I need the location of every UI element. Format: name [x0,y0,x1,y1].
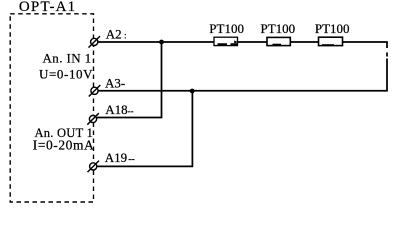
wire right vertical (dashed top artifact) [386,42,388,57]
wire right vertical solid [386,59,388,92]
wire A19 up to A3 net [98,91,193,166]
wire bottom return to A3 [98,90,388,92]
terminal A3 [89,85,101,97]
junction on A2 net [159,40,164,45]
svg-text:I=0-20mA: I=0-20mA [33,138,95,153]
resistor PT100 #1 [209,21,244,46]
wire A18 up to A2 net [97,43,162,118]
svg-text:U=0-10V: U=0-10V [39,67,93,82]
wire A2 horizontal to PT100 chain [98,41,388,43]
svg-text:PT100: PT100 [209,21,244,36]
resistor PT100 #3 [315,21,350,46]
terminal A18 [87,113,99,125]
junction on A3 net [190,89,195,94]
resistor PT100 #2 [261,21,296,46]
svg-text:PT100: PT100 [261,21,296,36]
svg-text:A18--: A18-- [105,102,133,117]
terminal A19 [88,161,100,173]
svg-text:A2 :: A2 : [106,26,127,41]
svg-text:A3-: A3- [105,76,125,91]
terminal A2 [89,36,101,48]
svg-text:PT100: PT100 [315,21,350,36]
svg-text:An. IN 1: An. IN 1 [43,51,92,66]
svg-text:OPT-A1: OPT-A1 [19,0,77,15]
module OPT-A1 dashed boundary [10,14,93,202]
svg-text:A19--: A19-- [105,150,135,165]
